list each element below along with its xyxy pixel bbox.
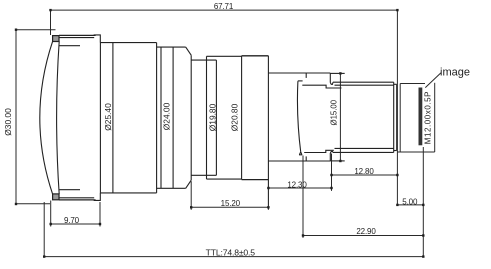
svg-text:9.70: 9.70 xyxy=(64,216,80,225)
svg-text:15.20: 15.20 xyxy=(221,199,241,208)
svg-text:image: image xyxy=(440,67,470,79)
svg-text:Ø30.00: Ø30.00 xyxy=(3,108,13,136)
svg-text:Ø24.00: Ø24.00 xyxy=(161,102,171,130)
svg-text:67.71: 67.71 xyxy=(214,2,234,11)
svg-text:Ø20.80: Ø20.80 xyxy=(230,103,240,131)
svg-text:22.90: 22.90 xyxy=(356,227,376,236)
svg-text:Ø15.00: Ø15.00 xyxy=(330,99,339,125)
svg-text:M12.00x0.5P: M12.00x0.5P xyxy=(423,91,432,144)
svg-text:12.80: 12.80 xyxy=(354,167,374,176)
svg-text:12.30: 12.30 xyxy=(287,180,307,189)
svg-text:Ø19.80: Ø19.80 xyxy=(208,103,218,131)
svg-text:Ø25.40: Ø25.40 xyxy=(103,103,113,131)
svg-text:TTL:74.8±0.5: TTL:74.8±0.5 xyxy=(206,247,256,257)
svg-text:5.00: 5.00 xyxy=(402,197,418,206)
